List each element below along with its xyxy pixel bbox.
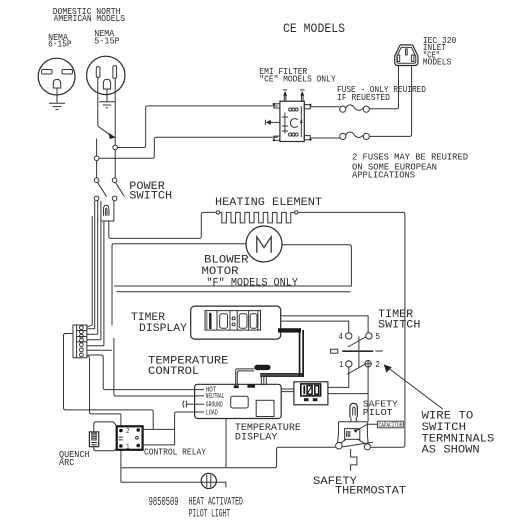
svg-text:SWITCH: SWITCH <box>422 422 467 434</box>
wire relay feed down <box>120 414 122 426</box>
svg-text:TERMNINALS: TERMNINALS <box>422 433 495 445</box>
EMI filter internal right lead <box>300 106 303 137</box>
wire NEUTRAL <box>114 338 195 396</box>
EMI filter ground lug right <box>300 90 304 101</box>
EMI filter side tabs <box>273 103 312 141</box>
wire filter to fuse 2 <box>310 137 339 139</box>
safety thermostat body <box>338 422 369 444</box>
svg-text:6-15P: 6-15P <box>48 39 72 50</box>
label TEMPERATURE CONTROL <box>148 356 229 378</box>
label CAPACITOR boxed <box>353 421 403 433</box>
wire relay to LOAD riser <box>143 428 175 430</box>
timer switch terminal 5 <box>366 333 372 339</box>
svg-text:TIMER: TIMER <box>131 312 165 324</box>
thermostat terminal right <box>364 444 370 450</box>
switch lamp housing <box>101 201 114 221</box>
wire bundle vertical D <box>103 221 105 346</box>
temp display box <box>294 382 328 405</box>
svg-text:ARC: ARC <box>59 457 75 468</box>
svg-text:MODELS: MODELS <box>423 56 452 67</box>
svg-text:WIRE TO: WIRE TO <box>422 411 474 423</box>
label 9850509 HEAT ACTIVATED PILOT LIGHT <box>149 496 244 521</box>
svg-text:"F" MODELS ONLY: "F" MODELS ONLY <box>206 277 298 289</box>
label FUSE - ONLY REQUIRED IF REQUESTED <box>337 84 426 103</box>
label POWER SWITCH <box>129 181 172 203</box>
svg-text:APPLICATIONS: APPLICATIONS <box>352 169 415 180</box>
wire timer display to terminal 4 <box>281 321 349 333</box>
wire bundle vertical A <box>94 201 96 329</box>
label TEMPERATURE DISPLAY <box>235 422 301 443</box>
wire filter to fuse 1 <box>310 106 339 108</box>
svg-text:2: 2 <box>126 428 130 436</box>
svg-text:"CE" MODELS ONLY: "CE" MODELS ONLY <box>259 74 336 85</box>
digit 1 <box>209 313 211 329</box>
svg-text:DISPLAY: DISPLAY <box>139 323 187 335</box>
svg-text:NEUTRAL: NEUTRAL <box>206 393 225 401</box>
board inner relay outline <box>231 396 249 408</box>
svg-text:SWITCH: SWITCH <box>129 191 172 203</box>
svg-text:1: 1 <box>339 359 344 370</box>
label DOMESTIC NORTH AMERICAN MODELS <box>53 6 126 24</box>
board terminal ticks <box>195 390 204 412</box>
svg-text:AS SHOWN: AS SHOWN <box>422 445 480 457</box>
heating element end node <box>295 211 298 214</box>
fuse F1 <box>340 105 370 112</box>
wire pilot light run <box>121 482 226 487</box>
power switch poles <box>94 178 124 201</box>
annotation arrow to terminal 2 <box>384 364 443 409</box>
wire timer display to terminal 5 <box>281 316 368 333</box>
svg-text:MOTOR: MOTOR <box>202 266 239 278</box>
thick ribbon cable timer to temp control <box>260 328 304 377</box>
temp display window <box>301 384 321 396</box>
wire board drop to relay run <box>225 419 227 468</box>
IEC 320 inlet <box>395 45 418 66</box>
wire HOT <box>87 355 195 390</box>
svg-text:IF REUESTED: IF REUESTED <box>337 92 390 103</box>
neon lamp in switch <box>104 205 109 216</box>
wire bundle vertical B <box>97 201 99 334</box>
capacitor in thermostat <box>341 429 365 444</box>
svg-text:CE MODELS: CE MODELS <box>283 21 345 36</box>
wire relay to thermostat run <box>121 447 336 467</box>
svg-text:CONTROL RELAY: CONTROL RELAY <box>144 446 206 457</box>
wire plug hot down <box>97 78 99 127</box>
ground symbol at board <box>183 401 195 408</box>
svg-text:5-15P: 5-15P <box>94 35 120 46</box>
wire motor feed <box>112 244 246 325</box>
ground symbol of 6-15P plug <box>49 88 65 110</box>
wire board to temp display <box>281 389 294 392</box>
svg-text:HEATING ELEMENT: HEATING ELEMENT <box>215 197 322 209</box>
svg-text:CAPACITOR: CAPACITOR <box>379 422 403 429</box>
timer display box <box>191 306 281 339</box>
EMI filter ground lug left <box>283 90 287 101</box>
plug NEMA 6-15P body <box>38 58 75 95</box>
label HOT NEUTRAL GROUND LOAD <box>206 387 225 418</box>
digit 0 <box>250 314 257 328</box>
quench arc lobe outline <box>94 422 117 451</box>
label NEMA 5-15P <box>94 28 120 46</box>
svg-text:THERMOSTAT: THERMOSTAT <box>335 486 406 498</box>
board inner square <box>256 400 274 416</box>
disconnect blade with arrow <box>98 126 116 139</box>
svg-text:2: 2 <box>375 359 380 370</box>
svg-text:PILOT: PILOT <box>363 407 393 418</box>
wire bundle vertical C <box>100 221 102 340</box>
wire to EMI filter lower <box>99 137 278 158</box>
timer switch terminal 1 <box>346 361 352 367</box>
wire bundle upper to block diag <box>91 216 93 325</box>
pigtail wire on temp control <box>236 365 271 385</box>
pilot light <box>201 473 216 488</box>
EMI filter internal capacitors <box>282 113 288 134</box>
thermostat capillary jog <box>351 449 357 471</box>
label IEC 320 INLET CE MODELS <box>423 35 457 68</box>
svg-text:LOAD: LOAD <box>206 409 218 417</box>
ribbon drop into temp control board <box>261 377 266 385</box>
label SAFETY THERMOSTAT <box>313 476 406 498</box>
wire fuse 1 to inlet <box>369 66 398 109</box>
label TIMER SWITCH <box>378 309 420 332</box>
plug NEMA 5-15P body <box>87 56 125 94</box>
terminal block <box>73 325 87 358</box>
wire plug neutral down <box>114 79 116 146</box>
svg-text:PILOT LIGHT: PILOT LIGHT <box>189 509 231 521</box>
colon <box>232 317 235 326</box>
control relay box <box>117 426 143 451</box>
label TIMER DISPLAY <box>131 312 187 335</box>
heating element start node <box>216 211 219 214</box>
wire relay bottom down <box>120 450 122 483</box>
wire heater feed <box>109 212 217 238</box>
label 2 FUSES MAY BE REQUIRED <box>352 152 468 181</box>
label SAFETY PILOT <box>363 399 398 418</box>
label BLOWER MOTOR F MODELS ONLY <box>202 255 299 290</box>
EMI filter left arrow terminal <box>265 120 280 125</box>
svg-text:9850509: 9850509 <box>149 496 179 509</box>
wire right bus <box>298 212 405 447</box>
node junction left <box>94 156 99 161</box>
svg-text:5: 5 <box>375 331 380 342</box>
timer switch terminal 4 <box>346 333 352 339</box>
svg-text:HEAT ACTIVATED: HEAT ACTIVATED <box>189 496 244 508</box>
temp control board <box>195 384 282 418</box>
wire left chain to node <box>96 139 98 157</box>
timer display window <box>205 311 261 331</box>
wire block to relay coil <box>87 356 121 414</box>
digit 0 <box>220 314 228 328</box>
EMI filter internal C arc <box>290 119 298 128</box>
wire fuse 2 to inlet <box>369 66 411 137</box>
temp display buttons <box>304 398 318 401</box>
label WIRE TO SWITCH TERMINALS AS SHOWN <box>422 411 495 457</box>
svg-text:GROUND: GROUND <box>206 402 223 410</box>
timer switch blade lower <box>347 364 366 375</box>
block link wires right <box>87 325 112 350</box>
svg-text:1: 1 <box>126 443 130 451</box>
wire relay to load bottom <box>143 444 175 446</box>
svg-text:4: 4 <box>338 331 343 342</box>
label EMI FILTER CE MODELS ONLY <box>259 66 336 85</box>
EMI filter box <box>280 101 304 141</box>
block left wire <box>64 334 154 430</box>
svg-text:CONTROL: CONTROL <box>148 366 200 378</box>
svg-text:SWITCH: SWITCH <box>378 319 420 331</box>
ground symbol of 5-15P plug <box>99 89 115 108</box>
heating element <box>220 212 295 223</box>
label NEMA 6-15P <box>48 32 72 49</box>
fuse F2 <box>340 132 370 139</box>
safety pilot bulb <box>350 403 357 421</box>
wire temp display to terminal 2 wire <box>328 393 368 395</box>
timer switch blade upper <box>348 337 367 347</box>
wire to EMI filter upper <box>118 106 278 148</box>
wire terminal 2 down to thermostat <box>367 367 369 422</box>
wire lower long horizontal <box>117 291 351 293</box>
svg-text:AMERICAN MODELS: AMERICAN MODELS <box>54 13 126 24</box>
label QUENCH ARC <box>59 449 90 468</box>
wire node to switch left pole <box>96 161 98 178</box>
svg-text:DISPLAY: DISPLAY <box>235 431 278 443</box>
timer switch crossbar <box>331 349 383 353</box>
EMI filter internal coils <box>289 108 299 136</box>
node junction right <box>113 145 118 150</box>
quench arc component <box>89 432 98 447</box>
timer switch mid stem <box>358 337 360 368</box>
board top black tabs <box>234 384 255 388</box>
motor box outline <box>114 245 351 286</box>
wire LOAD riser <box>175 412 195 445</box>
blower motor M <box>246 226 282 262</box>
svg-text:BLOWER: BLOWER <box>204 255 249 267</box>
digit 0 <box>239 314 247 328</box>
wire terminal 1 to temp display <box>328 367 349 387</box>
timer switch terminal 2 <box>365 361 371 367</box>
thermostat blade <box>342 442 373 447</box>
wire junction to switch right pole <box>114 150 116 178</box>
thermostat terminal left <box>336 442 343 449</box>
